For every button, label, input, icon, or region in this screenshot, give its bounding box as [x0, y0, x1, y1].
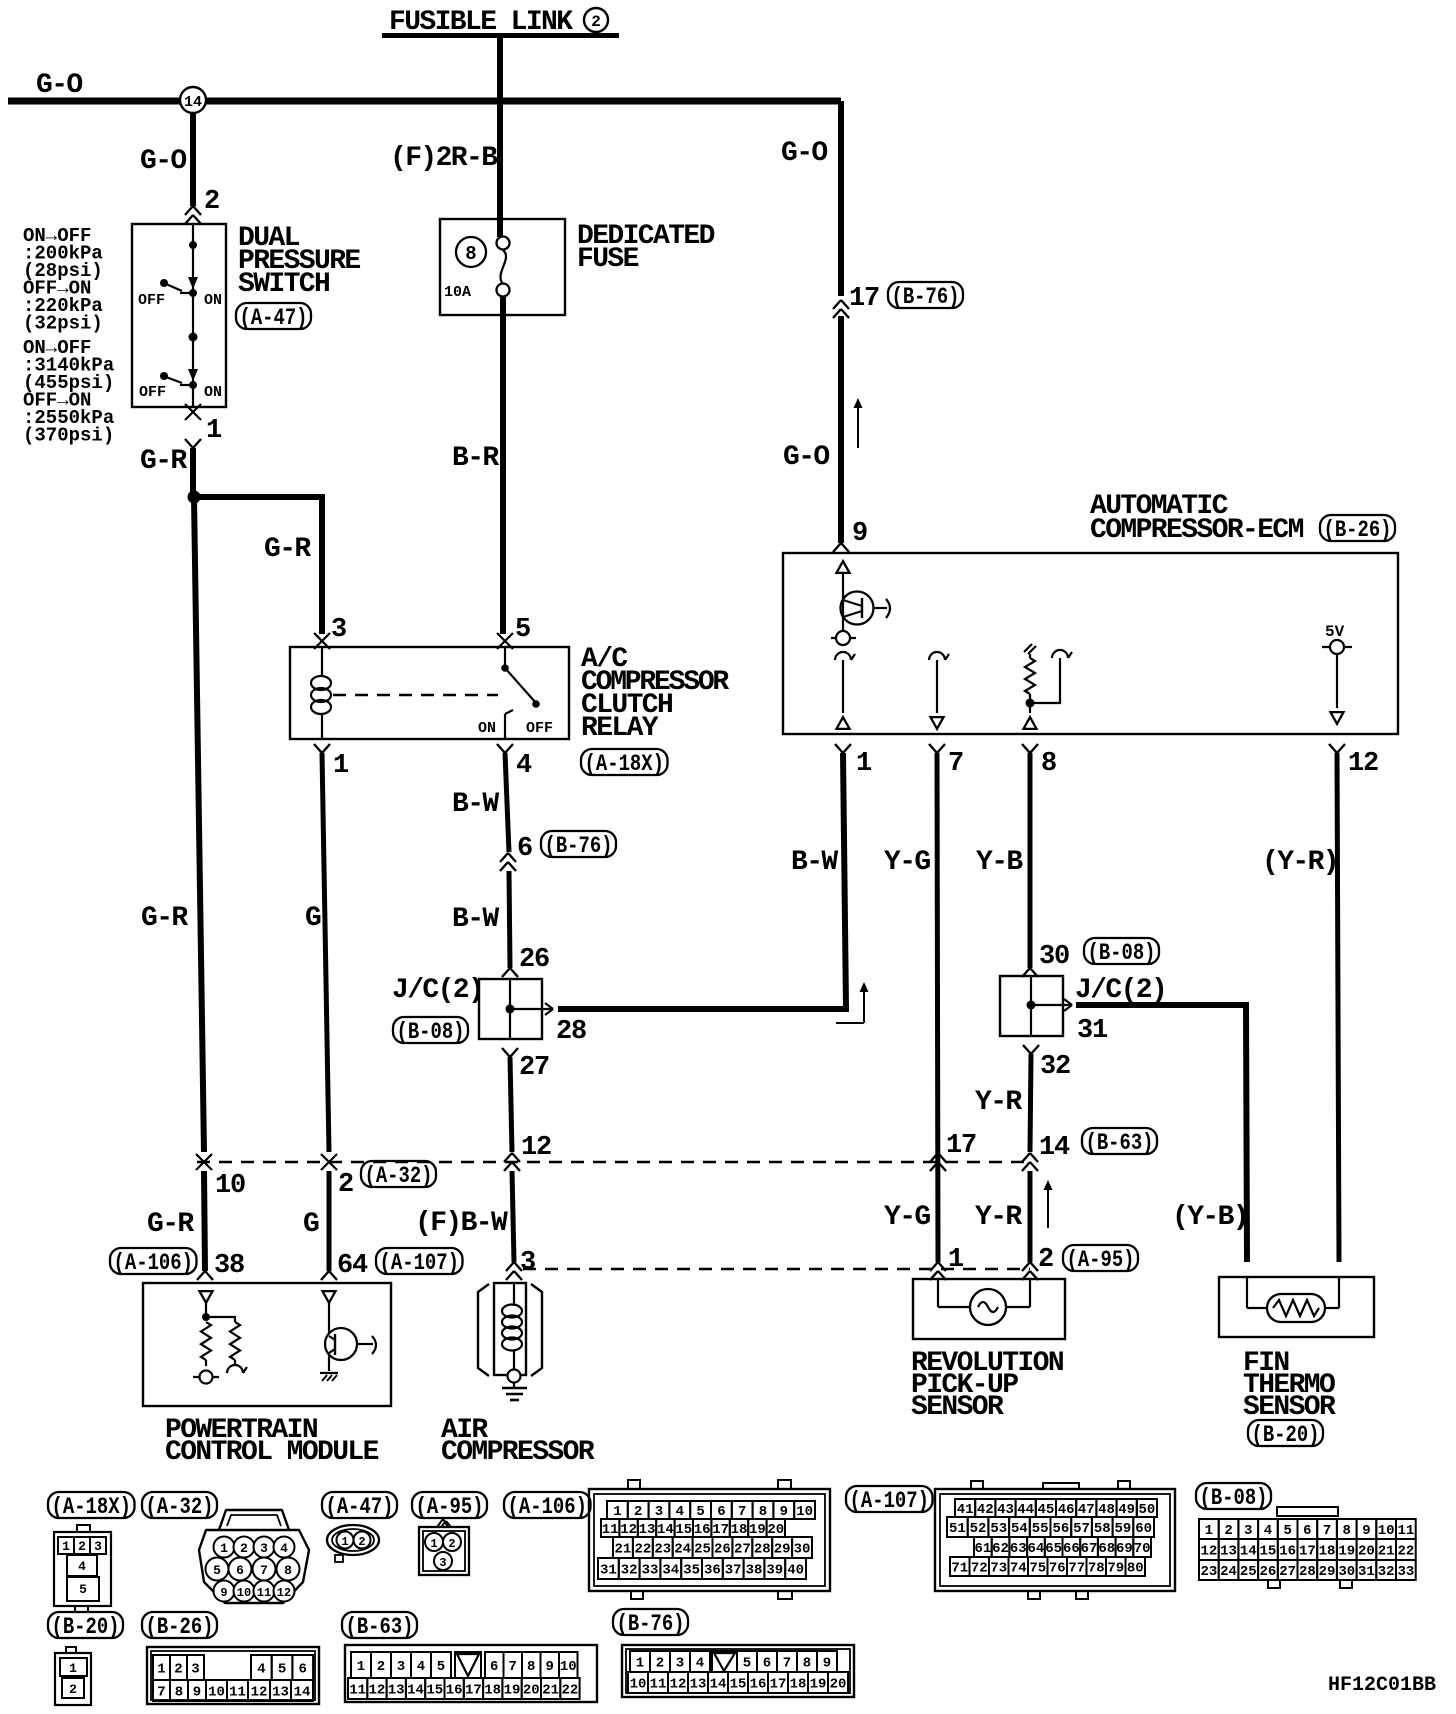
svg-text:21: 21: [615, 1542, 632, 1558]
svg-text:G-R: G-R: [140, 446, 187, 477]
svg-text:2: 2: [204, 187, 219, 217]
air compressor terminal circle: [508, 1370, 521, 1383]
wire Y-B ECM pin8 down: [1028, 753, 1033, 968]
connector label B-26: [1320, 515, 1395, 541]
svg-text:68: 68: [1098, 1541, 1115, 1557]
svg-text:33: 33: [642, 1563, 659, 1579]
svg-text:6: 6: [299, 1662, 307, 1678]
svg-text:(B-20): (B-20): [1252, 1422, 1320, 1448]
svg-text:17: 17: [1299, 1544, 1316, 1560]
connector label A-106 inline: [110, 1248, 197, 1274]
connector A-18X drawing: [77, 1525, 90, 1532]
switch arrow upper: [188, 277, 198, 289]
svg-text:8: 8: [1041, 749, 1056, 779]
svg-text:8: 8: [175, 1685, 183, 1701]
svg-text:(A-47): (A-47): [240, 305, 308, 331]
wire G to PCM pin 64: [327, 1171, 332, 1271]
svg-text:2: 2: [338, 1170, 353, 1200]
svg-text:3: 3: [331, 615, 346, 645]
arrow up at J/C corner: [836, 1022, 864, 1024]
svg-text:2: 2: [1038, 1245, 1053, 1275]
ECM pin 12 exit: [1329, 744, 1337, 753]
svg-text:9: 9: [852, 519, 867, 549]
svg-text:3: 3: [397, 1659, 405, 1675]
wire (F)B-W to air compressor: [512, 1171, 514, 1262]
svg-text:33: 33: [1397, 1564, 1414, 1580]
switch contact dot lower: [189, 333, 198, 342]
ECM pin8 branch to comparator: [1030, 658, 1060, 703]
svg-text:5: 5: [437, 1659, 445, 1675]
svg-text:8: 8: [527, 1659, 535, 1675]
crossing pin 12 (B-63): [504, 1153, 512, 1162]
PCM node: [202, 1313, 210, 1321]
svg-text:5: 5: [1283, 1523, 1291, 1539]
svg-text:60: 60: [1135, 1521, 1152, 1537]
svg-text:10: 10: [630, 1677, 647, 1693]
svg-text:42: 42: [977, 1502, 994, 1518]
svg-text:77: 77: [1068, 1561, 1085, 1577]
fuse circuit number circle 8: [456, 237, 486, 267]
svg-text:5: 5: [515, 615, 530, 645]
inline connector B-76 pin 17 crossing: [833, 300, 841, 309]
svg-text:SENSOR: SENSOR: [911, 1392, 1004, 1423]
svg-text:4: 4: [417, 1659, 425, 1675]
svg-text:1: 1: [1205, 1523, 1213, 1539]
svg-text:30: 30: [794, 1542, 811, 1558]
svg-text:9: 9: [193, 1685, 201, 1701]
fuse element: [497, 237, 510, 250]
svg-text:71: 71: [951, 1561, 968, 1577]
svg-text:1: 1: [69, 1661, 77, 1676]
svg-text:28: 28: [754, 1542, 771, 1558]
svg-text:8: 8: [1343, 1523, 1351, 1539]
svg-text:SENSOR: SENSOR: [1243, 1392, 1336, 1423]
svg-text:(32psi): (32psi): [23, 313, 103, 335]
wire fusible link to dedicated fuse: [497, 38, 503, 237]
svg-text:14: 14: [184, 94, 202, 111]
PCM sensor circle: [193, 1376, 219, 1378]
svg-text:22: 22: [634, 1542, 651, 1558]
connector label A-47: [236, 303, 311, 329]
fin thermo sensor box: [1219, 1277, 1374, 1337]
connector label A-47: [322, 1492, 397, 1518]
connector label B-26: [142, 1612, 217, 1638]
switch pin 1 exit crossing: [185, 404, 201, 420]
svg-text:Y-B: Y-B: [976, 847, 1023, 878]
svg-text:3: 3: [655, 1504, 663, 1520]
relay pin 1 exit: [314, 744, 322, 753]
arrow up beside Y-R: [1047, 1183, 1049, 1228]
connector label B-08: [1196, 1483, 1271, 1509]
svg-text:79: 79: [1107, 1561, 1124, 1577]
svg-text:48: 48: [1098, 1502, 1115, 1518]
svg-text:4: 4: [78, 1559, 86, 1574]
svg-text:(B-08): (B-08): [397, 1019, 465, 1045]
svg-text:56: 56: [1052, 1521, 1069, 1537]
junction dot G-R branch: [188, 491, 201, 504]
wire B-W to J/C: [509, 871, 510, 968]
svg-text:40: 40: [787, 1563, 804, 1579]
svg-text:52: 52: [970, 1521, 987, 1537]
svg-text:14: 14: [294, 1685, 311, 1701]
arrow up beside G-O wire: [857, 401, 859, 448]
svg-text:61: 61: [974, 1541, 991, 1557]
svg-text:(B-76): (B-76): [892, 284, 960, 310]
svg-text:12: 12: [620, 1522, 637, 1538]
svg-text:1: 1: [220, 1541, 228, 1556]
PCM resistor R2 branch: [206, 1317, 235, 1322]
svg-text:FUSE: FUSE: [577, 244, 639, 275]
svg-text:3: 3: [439, 1556, 446, 1570]
svg-text:55: 55: [1032, 1521, 1049, 1537]
svg-text:13: 13: [1220, 1544, 1237, 1560]
svg-text:9: 9: [823, 1656, 831, 1672]
svg-text:38: 38: [214, 1251, 244, 1281]
svg-text:19: 19: [810, 1677, 827, 1693]
dashed harness line upper: [197, 1161, 1030, 1164]
connector label A-32: [142, 1492, 217, 1518]
svg-text:57: 57: [1073, 1521, 1090, 1537]
svg-text:23: 23: [1200, 1564, 1217, 1580]
svg-text:OFF: OFF: [138, 292, 165, 309]
svg-text:(B-63): (B-63): [1086, 1130, 1154, 1156]
svg-text:31: 31: [1077, 1016, 1108, 1046]
svg-text:73: 73: [990, 1561, 1007, 1577]
svg-text:66: 66: [1063, 1541, 1080, 1557]
svg-text:3: 3: [520, 1248, 535, 1278]
ECM pin8 pull-up hatch: [1024, 644, 1032, 652]
wire G-R switch to junction: [190, 448, 196, 497]
svg-text:25: 25: [1240, 1564, 1257, 1580]
PCM pin 64 entry: [321, 1271, 329, 1280]
svg-text:(A-47): (A-47): [326, 1494, 394, 1520]
relay ON terminal tick: [504, 714, 506, 722]
svg-text:2: 2: [634, 1504, 642, 1520]
crossing pin 3 (air compressor): [506, 1262, 514, 1271]
svg-text:78: 78: [1088, 1561, 1105, 1577]
svg-text:7: 7: [157, 1685, 165, 1701]
svg-text:8: 8: [465, 243, 476, 265]
svg-text:18: 18: [790, 1677, 807, 1693]
svg-text:J/C(2): J/C(2): [392, 975, 483, 1006]
svg-text:14: 14: [710, 1677, 727, 1693]
ECM resistor R1: [1029, 654, 1031, 658]
relay contact common: [504, 647, 506, 668]
svg-text:31: 31: [600, 1563, 617, 1579]
svg-text:G: G: [305, 903, 321, 934]
dashed harness line lower: [523, 1268, 1030, 1271]
svg-text:5: 5: [696, 1504, 704, 1520]
svg-text:B-W: B-W: [791, 847, 838, 878]
sensor internal wiring: [937, 1279, 939, 1307]
svg-text:34: 34: [662, 1563, 679, 1579]
svg-text:Y-R: Y-R: [975, 1202, 1022, 1233]
crossing pin 10: [196, 1154, 212, 1170]
connector label B-76: [888, 282, 963, 308]
connector A-106 drawing: [628, 1480, 640, 1489]
revolution pick-up sensor box: [913, 1279, 1065, 1339]
ground symbol: [513, 1382, 515, 1387]
fin thermo internal wiring: [1246, 1277, 1248, 1308]
ECM pin7 internal triangle: [931, 717, 944, 729]
junction block J/C(2) right: [1000, 976, 1063, 1036]
crossing pin 17 (B-63): [930, 1153, 938, 1162]
svg-text:28: 28: [1299, 1564, 1316, 1580]
svg-text:70: 70: [1134, 1541, 1151, 1557]
svg-text:28: 28: [556, 1017, 586, 1047]
svg-text:37: 37: [725, 1563, 742, 1579]
connector label B-20: [48, 1612, 123, 1638]
svg-text:9: 9: [780, 1504, 788, 1520]
svg-text:59: 59: [1115, 1521, 1132, 1537]
ECM node pin8: [1026, 699, 1035, 708]
svg-text:6: 6: [1303, 1523, 1311, 1539]
connector B-08 drawing: [1277, 1507, 1338, 1516]
svg-text:64: 64: [1028, 1541, 1045, 1557]
pin 32 exit: [1023, 1045, 1031, 1054]
svg-text:12: 12: [277, 1586, 291, 1600]
svg-text:ON: ON: [478, 720, 496, 737]
svg-text:25: 25: [694, 1542, 711, 1558]
svg-text:2: 2: [377, 1659, 385, 1675]
svg-text:18: 18: [731, 1522, 748, 1538]
svg-text:9: 9: [220, 1586, 227, 1600]
svg-text:CONTROL MODULE: CONTROL MODULE: [165, 1437, 379, 1468]
svg-text:6: 6: [236, 1563, 244, 1578]
connector B-76 drawing: [622, 1645, 854, 1697]
crossing pin 2 (A-95): [1022, 1262, 1030, 1271]
wire Y-R J/C to crossing: [1030, 1054, 1031, 1152]
ECM test point circle pin1 branch: [831, 637, 856, 639]
svg-text:11: 11: [602, 1522, 619, 1538]
svg-text:13: 13: [639, 1522, 656, 1538]
connector label A-18X: [581, 749, 668, 775]
connector A-107 drawing: [971, 1481, 983, 1489]
svg-text:16: 16: [694, 1522, 711, 1538]
svg-text:41: 41: [957, 1502, 974, 1518]
svg-text:36: 36: [704, 1563, 721, 1579]
svg-text:18: 18: [484, 1683, 501, 1699]
connector label A-18X: [48, 1492, 135, 1518]
svg-text:G-O: G-O: [140, 146, 186, 177]
svg-text:49: 49: [1118, 1502, 1135, 1518]
svg-text:COMPRESSOR-ECM: COMPRESSOR-ECM: [1090, 515, 1304, 546]
svg-text:12: 12: [521, 1133, 551, 1163]
svg-text:1: 1: [157, 1662, 165, 1678]
inline connector B-76 pin 6 crossing: [500, 853, 508, 862]
svg-text:47: 47: [1078, 1502, 1095, 1518]
svg-text:7: 7: [783, 1656, 791, 1672]
svg-text:6: 6: [717, 1504, 725, 1520]
wire B-W J/C to dashed crossing: [510, 1057, 512, 1152]
svg-text:7: 7: [260, 1563, 268, 1578]
wire G-O drop from node 14: [190, 112, 196, 206]
wire G relay pin1 to PCM 64: [322, 753, 329, 1152]
svg-text:10A: 10A: [444, 284, 471, 301]
wire G-R to PCM pin 38: [204, 1171, 205, 1271]
svg-text:COMPRESSOR: COMPRESSOR: [441, 1437, 595, 1468]
air compressor clutch coil: [513, 1283, 515, 1306]
svg-text:(Y-B): (Y-B): [1172, 1202, 1248, 1233]
svg-text:27: 27: [519, 1053, 549, 1083]
switch contact dot upper: [189, 241, 197, 249]
svg-text:2: 2: [1224, 1523, 1232, 1539]
connector label A-107: [846, 1486, 933, 1512]
svg-text:2: 2: [240, 1541, 248, 1556]
svg-text:22: 22: [1397, 1544, 1414, 1560]
wire B-R fuse to relay: [500, 297, 506, 634]
svg-text:(A-95): (A-95): [1067, 1247, 1135, 1273]
connector B-63 drawing: [345, 1645, 597, 1702]
wire G-R branch to relay coil: [194, 497, 322, 634]
connector label A-95: [412, 1492, 487, 1518]
ECM pin 1 exit: [835, 744, 843, 753]
svg-text:32: 32: [621, 1563, 638, 1579]
connector A-47 drawing: [327, 1525, 379, 1555]
svg-text:11: 11: [349, 1683, 366, 1699]
svg-text:2: 2: [358, 1535, 365, 1549]
svg-text:17: 17: [946, 1131, 976, 1161]
svg-text:7: 7: [738, 1504, 746, 1520]
svg-text:(A-107): (A-107): [850, 1488, 930, 1514]
svg-text:32: 32: [1040, 1052, 1070, 1082]
svg-text:RELAY: RELAY: [581, 713, 659, 744]
svg-text:1: 1: [856, 749, 872, 779]
air compressor motor box: [494, 1283, 526, 1375]
node 14: [180, 87, 206, 113]
connector label B-76: [613, 1609, 688, 1635]
svg-text:4: 4: [676, 1504, 684, 1520]
svg-text:54: 54: [1011, 1521, 1028, 1537]
svg-text:11: 11: [229, 1685, 246, 1701]
svg-text:2: 2: [174, 1662, 182, 1678]
powertrain control module box: [143, 1283, 391, 1406]
ECM pin 8 exit: [1022, 744, 1030, 753]
inline connector pin 26 entry: [502, 968, 510, 977]
svg-text:9: 9: [546, 1659, 554, 1675]
air compressor right bracket: [531, 1284, 542, 1376]
svg-text:OFF: OFF: [139, 384, 166, 401]
PCM transistor Q2: [328, 1303, 330, 1371]
svg-text:(A-107): (A-107): [380, 1250, 460, 1276]
ECM pin 9 entry: [833, 543, 841, 552]
svg-text:1: 1: [948, 1245, 964, 1275]
svg-text:22: 22: [561, 1683, 578, 1699]
svg-text:B-R: B-R: [452, 443, 499, 474]
svg-text:62: 62: [992, 1541, 1009, 1557]
svg-text:1: 1: [430, 1537, 437, 1551]
svg-text:53: 53: [990, 1521, 1007, 1537]
svg-text:63: 63: [1010, 1541, 1027, 1557]
svg-text:15: 15: [675, 1522, 692, 1538]
junction block J/C(2) left: [479, 979, 542, 1039]
svg-text:24: 24: [674, 1542, 691, 1558]
svg-text:20: 20: [767, 1522, 784, 1538]
svg-text:(F)2R-B: (F)2R-B: [390, 143, 498, 174]
svg-text:65: 65: [1045, 1541, 1062, 1557]
svg-text:21: 21: [542, 1683, 559, 1699]
svg-text:(370psi): (370psi): [23, 425, 114, 447]
connector B-26 drawing: [147, 1647, 319, 1704]
svg-text:14: 14: [657, 1522, 674, 1538]
svg-text:20: 20: [830, 1677, 847, 1693]
connector label B-08 right: [1084, 938, 1159, 964]
relay pin 3 entry crossing: [314, 633, 330, 649]
svg-text:(Y-R): (Y-R): [1262, 847, 1338, 878]
dedicated fuse box: [440, 219, 565, 315]
wire Y-R ECM pin12 down: [1337, 753, 1339, 1262]
svg-text:23: 23: [654, 1542, 671, 1558]
svg-text:12: 12: [1348, 749, 1378, 779]
svg-text:G-O: G-O: [783, 442, 829, 473]
svg-text:3: 3: [94, 1539, 102, 1554]
svg-text:7: 7: [1323, 1523, 1331, 1539]
PCM pin38 internal triangle: [200, 1291, 213, 1303]
svg-text:46: 46: [1058, 1502, 1075, 1518]
relay pin 4 wire inside: [504, 722, 506, 739]
svg-text:27: 27: [1279, 1564, 1296, 1580]
connector label B-63: [342, 1612, 417, 1638]
pin 27 exit: [502, 1048, 510, 1057]
svg-text:76: 76: [1049, 1561, 1066, 1577]
svg-text:(A-32): (A-32): [146, 1494, 214, 1520]
ECM pin1 internal pin symbol: [835, 652, 851, 660]
ECM transistor Q1: [842, 573, 844, 592]
svg-text:(B-08): (B-08): [1200, 1485, 1268, 1511]
svg-text:12: 12: [368, 1683, 385, 1699]
connector A-32 drawing: [219, 1510, 289, 1530]
svg-text:OFF: OFF: [526, 720, 553, 737]
svg-text:3: 3: [676, 1656, 684, 1672]
wire G-O riser lower: [838, 316, 844, 543]
svg-text:39: 39: [766, 1563, 783, 1579]
svg-text:2: 2: [448, 1537, 455, 1551]
relay blade to OFF: [505, 668, 536, 703]
ECM pin 7 exit: [929, 744, 937, 753]
dual pressure switch box A-47: [132, 224, 226, 407]
svg-text:(B-20): (B-20): [52, 1614, 120, 1640]
crossing pin 14 (B-63): [1022, 1153, 1030, 1162]
connector A-95 drawing: [437, 1519, 443, 1527]
svg-text:G-O: G-O: [36, 70, 82, 101]
svg-text:19: 19: [1338, 1544, 1355, 1560]
relay pin 5 entry crossing: [497, 633, 513, 649]
svg-text:15: 15: [1260, 1544, 1277, 1560]
relay dashed link coil to contact: [333, 694, 498, 696]
PCM resistor R1: [201, 1322, 211, 1360]
svg-text:10: 10: [237, 1586, 251, 1600]
svg-text:15: 15: [426, 1683, 443, 1699]
svg-text:26: 26: [1260, 1564, 1277, 1580]
svg-text:1: 1: [206, 416, 222, 446]
svg-text:G: G: [303, 1209, 319, 1240]
svg-text:3: 3: [260, 1541, 268, 1556]
svg-text:5: 5: [743, 1656, 751, 1672]
svg-text:4: 4: [516, 751, 532, 781]
svg-text:50: 50: [1138, 1502, 1155, 1518]
svg-text:3: 3: [1244, 1523, 1252, 1539]
svg-text:(B-08): (B-08): [1088, 940, 1156, 966]
PCM R2 pin symbol: [227, 1365, 243, 1373]
svg-text:17: 17: [465, 1683, 482, 1699]
svg-text:17: 17: [770, 1677, 787, 1693]
svg-text:14: 14: [1240, 1544, 1257, 1560]
svg-text:11: 11: [1397, 1523, 1414, 1539]
svg-text:12: 12: [251, 1685, 268, 1701]
ECM pin8 internal triangle: [1024, 717, 1037, 729]
svg-text:14: 14: [407, 1683, 424, 1699]
connector label A-95 inline: [1063, 1245, 1138, 1271]
